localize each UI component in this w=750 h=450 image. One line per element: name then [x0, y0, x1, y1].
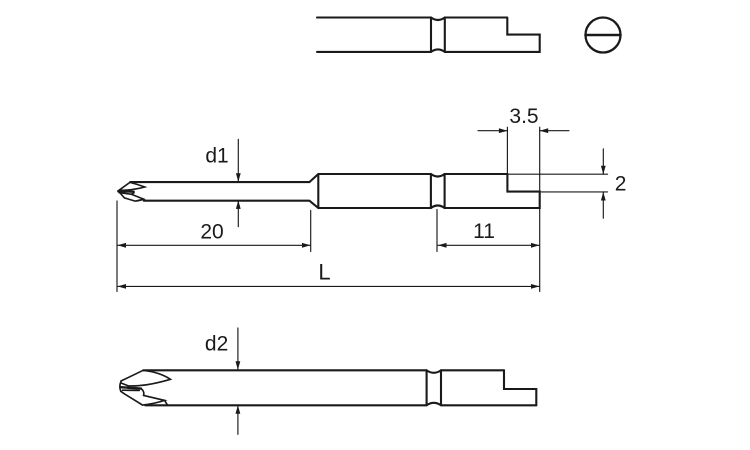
bit body (middle view) — [130, 174, 507, 208]
arrowheads d1 — [236, 173, 241, 182]
groove (bottom view) — [427, 370, 441, 405]
dimension line d2 — [237, 328, 239, 434]
svg-text:20: 20 — [200, 221, 223, 244]
phillips tip d2 (bottom view) — [120, 370, 171, 405]
svg-text:d2: d2 — [205, 333, 228, 356]
svg-text:11: 11 — [473, 220, 495, 243]
extension line left of 20 and L — [116, 201, 118, 292]
bit shank step notch (bottom view) — [504, 370, 536, 405]
arrowheads d2 — [236, 361, 241, 370]
bit body (bottom view) — [143, 370, 536, 405]
extension line right of 11 / L / 3.5 — [539, 127, 541, 291]
phillips tip d1 (middle view) — [118, 182, 145, 201]
dimension line 2 — [602, 149, 604, 219]
dimension line 11 — [438, 244, 540, 246]
bit shank step notch (middle view) — [318, 174, 539, 208]
dimension line 20 — [118, 244, 311, 246]
groove (middle view) — [431, 174, 445, 208]
arrowheads 20 — [118, 243, 127, 248]
end view slot line — [586, 34, 621, 37]
arrowheads 2 — [601, 166, 606, 175]
extension lines for 2 — [507, 174, 607, 192]
svg-text:2: 2 — [615, 173, 627, 196]
dimension line d1 — [237, 139, 239, 226]
shank side view (top) outline — [317, 18, 540, 52]
shank groove (top view) — [431, 18, 445, 52]
svg-text:d1: d1 — [205, 145, 228, 168]
arrowheads 3.5 — [499, 128, 508, 133]
arrowheads 11 — [438, 243, 447, 248]
svg-text:3.5: 3.5 — [509, 105, 538, 128]
extension line left of 11 — [436, 210, 438, 252]
end view circle — [586, 18, 621, 53]
arrowheads L — [118, 284, 127, 289]
dimension line 3.5 — [478, 130, 569, 132]
extension line right of 20 — [310, 211, 312, 252]
svg-text:L: L — [318, 260, 330, 285]
dimension line L — [118, 285, 540, 287]
extension line left of 3.5 — [506, 127, 508, 173]
